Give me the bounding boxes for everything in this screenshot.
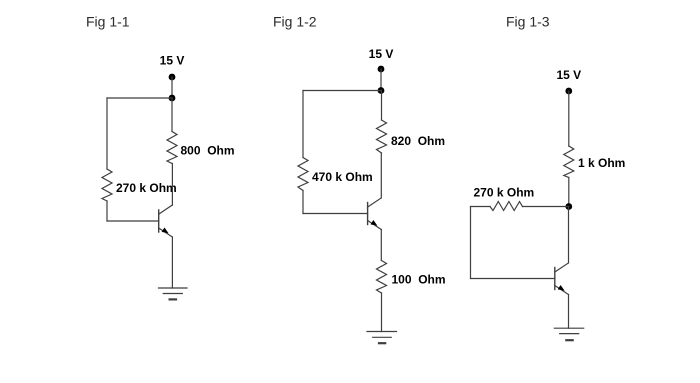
svg-text:15 V: 15 V (556, 68, 581, 82)
transistor Q2 (NPN, Fig 1-2) (368, 198, 382, 230)
wire: node C down to collector (Fig 1-3) (568, 207, 570, 263)
wire: R 270k bottom to base wire (Fig 1-1) (106, 201, 108, 221)
wire: node C to R 270k right end (Fig 1-3) (523, 206, 569, 208)
wire: node B to R 820 top (Fig 1-2) (381, 91, 383, 121)
svg-text:470 k Ohm: 470 k Ohm (312, 170, 373, 184)
svg-text:270 k Ohm: 270 k Ohm (116, 181, 177, 195)
wire: left branch down (Fig 1-3) (470, 207, 472, 279)
wire: base lead (Fig 1-2) (303, 213, 368, 215)
node A junction dot (Fig 1-1) (169, 95, 176, 102)
wire: R 270k left end to corner (Fig 1-3) (471, 206, 491, 208)
wire: R 470k bottom to base wire (Fig 1-2) (302, 191, 304, 214)
wire: emitter to ground (Fig 1-1) (171, 237, 173, 288)
transistor Q1 (NPN, Fig 1-1) (159, 205, 173, 237)
power terminal 15V (Fig 1-2) (378, 66, 385, 73)
wire: supply terminal to R 1k top (Fig 1-3) (568, 91, 570, 146)
wire: base lead (Fig 1-1) (107, 220, 159, 222)
svg-text:800 Ohm: 800 Ohm (181, 143, 235, 157)
resistor 270 k Ohm (Fig 1-1) (102, 169, 112, 201)
resistor 270 k Ohm (Fig 1-3, horizontal) (490, 202, 523, 211)
wire: R 100 bottom to ground (Fig 1-2) (381, 293, 383, 332)
svg-text:Fig 1-2: Fig 1-2 (273, 14, 317, 30)
resistor 820 Ohm (Fig 1-2) (377, 120, 387, 153)
svg-text:Fig 1-3: Fig 1-3 (506, 14, 550, 30)
svg-text:820 Ohm: 820 Ohm (391, 134, 445, 148)
svg-text:100 Ohm: 100 Ohm (392, 272, 446, 286)
node B junction dot (Fig 1-2) (378, 87, 385, 94)
ground symbol (Fig 1-1) (159, 288, 188, 299)
ground symbol (Fig 1-2) (367, 332, 397, 344)
transistor Q3 (NPN, Fig 1-3) (555, 263, 569, 295)
power terminal 15V (Fig 1-3) (565, 88, 572, 95)
wire: emitter to ground (Fig 1-3) (568, 295, 570, 329)
wire: R 1k bottom to node C (Fig 1-3) (568, 178, 570, 207)
node C junction dot (Fig 1-3) (565, 203, 572, 210)
svg-text:15 V: 15 V (369, 47, 394, 61)
wire: left branch down to R 470k top (Fig 1-2) (302, 91, 304, 158)
resistor 100 Ohm (Fig 1-2) (377, 261, 387, 294)
power terminal 15V (Fig 1-1) (169, 74, 176, 81)
wire: base lead (Fig 1-3) (471, 278, 555, 280)
svg-text:15 V: 15 V (160, 54, 185, 68)
wire: R 820 bottom to collector (Fig 1-2) (380, 153, 382, 198)
wire: node A to left branch (Fig 1-1) (107, 97, 172, 99)
wire: supply terminal to node A (Fig 1-1) (171, 77, 173, 98)
resistor 1 k Ohm (Fig 1-3) (564, 146, 574, 178)
resistor 800 Ohm (Fig 1-1) (167, 132, 177, 164)
wire: node A to R 800 top (Fig 1-1) (171, 98, 173, 132)
svg-text:270 k Ohm: 270 k Ohm (474, 186, 535, 200)
ground symbol (Fig 1-3) (554, 328, 583, 340)
wire: supply terminal to node B (Fig 1-2) (380, 69, 382, 91)
resistor 470 k Ohm (Fig 1-2) (298, 158, 308, 191)
wire: emitter to R 100 top (Fig 1-2) (380, 230, 382, 261)
wire: R 800 bottom to collector (Fig 1-1) (171, 164, 173, 206)
wire: left branch down to R 270k top (Fig 1-1) (106, 98, 108, 169)
wire: node B to left branch (Fig 1-2) (303, 90, 381, 92)
svg-text:1 k Ohm: 1 k Ohm (578, 156, 625, 170)
svg-text:Fig 1-1: Fig 1-1 (86, 14, 130, 30)
